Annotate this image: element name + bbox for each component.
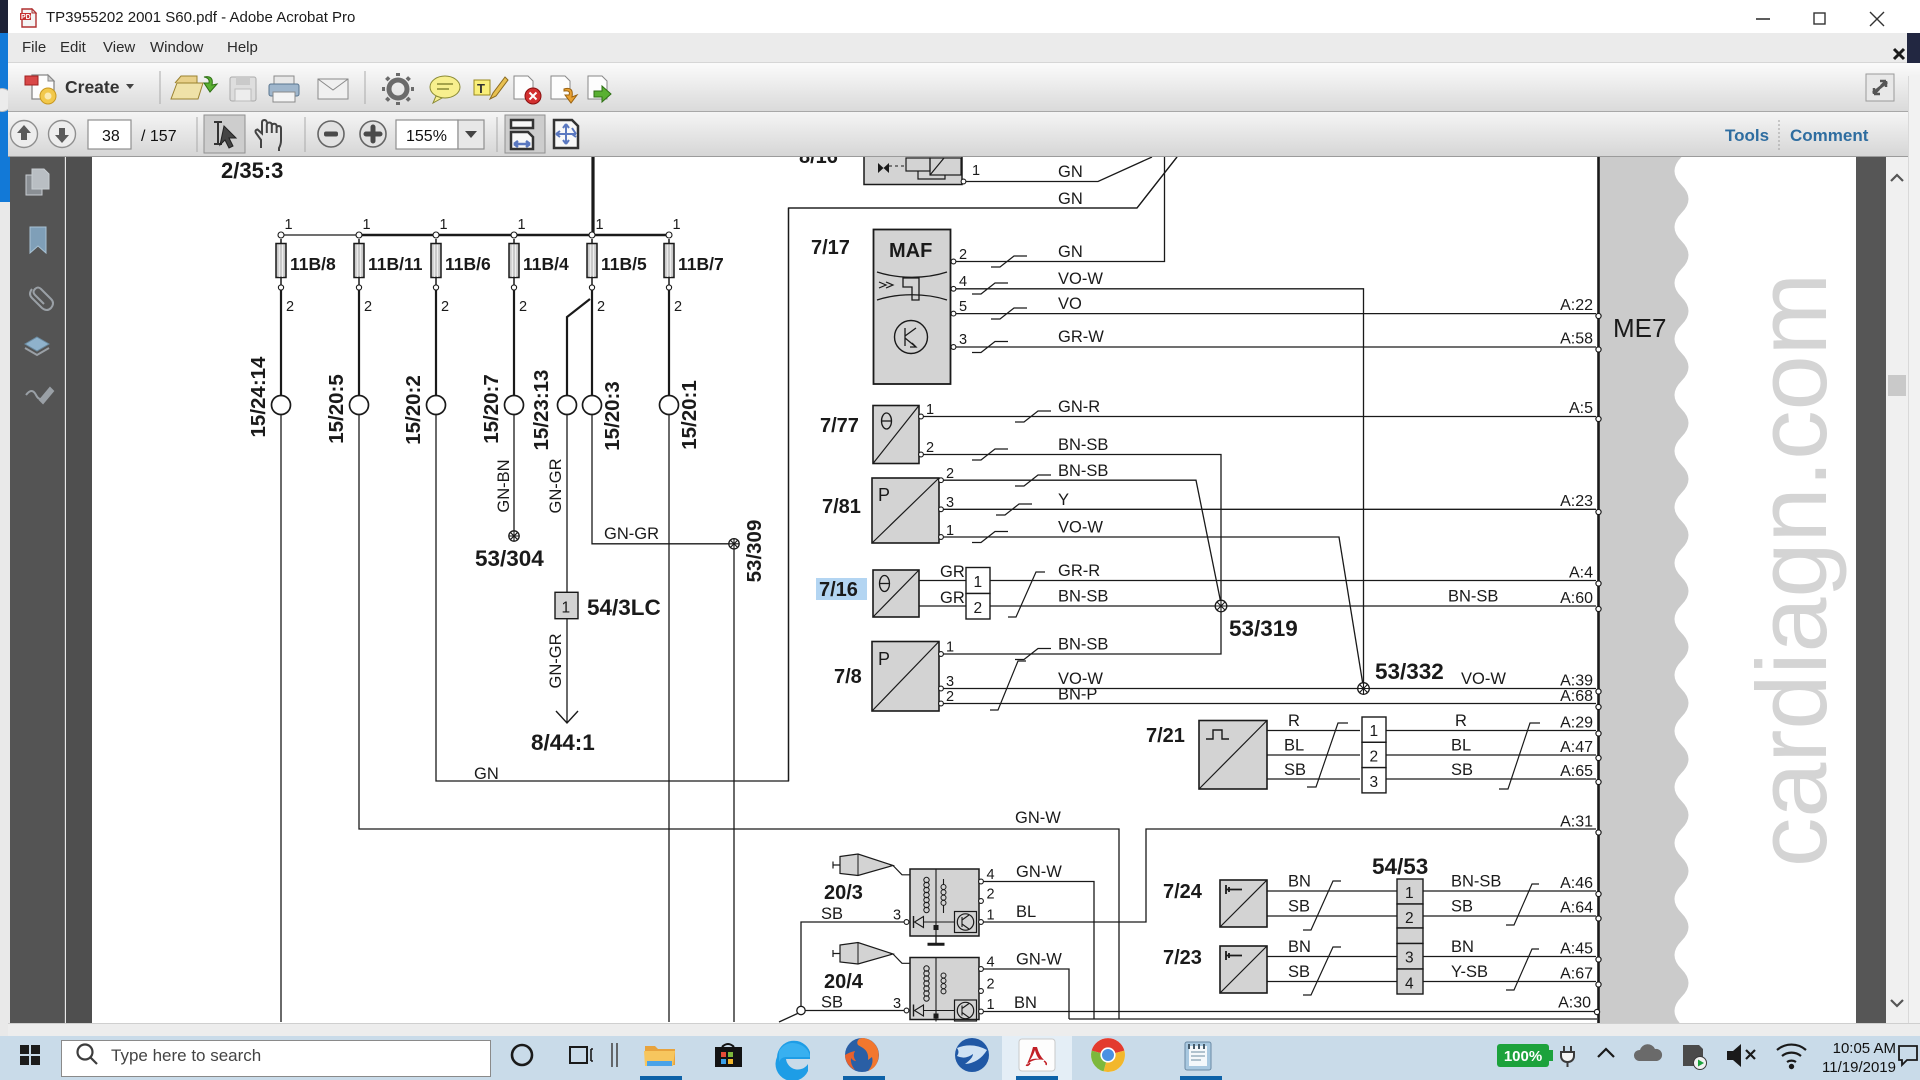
svg-text:GN-R: GN-R bbox=[1058, 398, 1100, 416]
wire GN-W 20/4 pin4 bbox=[984, 969, 1070, 1019]
connector 15/20:7 bbox=[480, 374, 524, 444]
file explorer bbox=[644, 1046, 675, 1066]
svg-text:SB: SB bbox=[1288, 963, 1310, 981]
wire GN-BN from 15/20:7 bbox=[513, 415, 515, 532]
connector 15/20:2 bbox=[402, 375, 446, 445]
mass air flow sensor 7/17 MAF bbox=[874, 230, 968, 385]
connector 15/24:14 bbox=[247, 356, 291, 438]
acrobat (active) bbox=[1019, 1039, 1055, 1071]
highlight text bbox=[474, 77, 508, 99]
select tool (pressed) bbox=[204, 115, 245, 153]
right maximize tool bbox=[1866, 74, 1894, 101]
node 53/304 bbox=[475, 531, 544, 571]
svg-text:2: 2 bbox=[674, 299, 682, 315]
toolbar 2 bbox=[8, 112, 1920, 157]
wire GN from 15/20:2 bbox=[436, 157, 1177, 781]
connector pins 1/2 of 7/16 bbox=[966, 568, 990, 620]
svg-text:15/20:5: 15/20:5 bbox=[325, 374, 348, 444]
splice slash bbox=[991, 256, 1027, 267]
wire GN lower diagonal bbox=[789, 157, 1178, 208]
wire 8/16 net down to GN rail bbox=[788, 208, 790, 781]
fit width (pressed) bbox=[505, 115, 545, 153]
connector 15/20:5 bbox=[325, 374, 369, 444]
svg-text:A:5: A:5 bbox=[1569, 400, 1593, 417]
svg-text:BN: BN bbox=[1288, 938, 1311, 956]
fuse 11B/4 bbox=[509, 217, 569, 315]
svg-text:SB: SB bbox=[821, 905, 843, 923]
svg-text:1: 1 bbox=[987, 908, 995, 924]
wire BN to A:45 bbox=[1423, 956, 1596, 958]
wire GR to connector pin 2 bbox=[919, 605, 966, 607]
svg-text:7/8: 7/8 bbox=[834, 666, 862, 688]
injector 20/3 bbox=[833, 854, 910, 876]
wire Y-SB to A:67 bbox=[1423, 981, 1596, 983]
svg-text:3: 3 bbox=[946, 674, 954, 690]
connector 54/3LC bbox=[555, 592, 661, 620]
wire VO MAF pin5 to A:22 bbox=[956, 313, 1596, 315]
svg-text:4: 4 bbox=[987, 955, 995, 971]
bus wire thick segment bbox=[359, 234, 669, 237]
svg-text:3: 3 bbox=[893, 996, 901, 1012]
svg-text:/ 157: / 157 bbox=[141, 128, 177, 145]
fuse 11B/8 bbox=[276, 217, 336, 315]
wire R to A:29 bbox=[1386, 730, 1596, 732]
splice slash bbox=[1506, 884, 1539, 925]
title bar bbox=[8, 0, 1920, 33]
search magnifier bbox=[78, 1045, 98, 1065]
svg-text:GN: GN bbox=[1058, 190, 1083, 208]
connector 54/53 bbox=[1372, 854, 1428, 994]
svg-text:1: 1 bbox=[946, 640, 954, 656]
desktop edges bbox=[0, 0, 10, 33]
battery 100% bbox=[1497, 1044, 1553, 1067]
splice slash bbox=[972, 283, 1008, 294]
thunderbird bbox=[955, 1038, 989, 1072]
svg-text:20/4: 20/4 bbox=[824, 971, 864, 993]
connector 15/20:1 bbox=[660, 380, 702, 450]
svg-text:A:65: A:65 bbox=[1560, 763, 1593, 780]
svg-text:11B/7: 11B/7 bbox=[678, 254, 724, 274]
splice slash bbox=[1499, 723, 1540, 789]
svg-text:A:67: A:67 bbox=[1560, 966, 1593, 983]
wire SB 7/23 bbox=[1267, 981, 1397, 983]
fuse 11B/7 bbox=[664, 217, 724, 315]
wire 53/309 down bbox=[733, 549, 735, 1022]
wire fuse 11B/7 to connector bbox=[668, 290, 670, 396]
wire fuse 11B/6 to connector bbox=[435, 290, 437, 396]
svg-text:1: 1 bbox=[285, 217, 293, 233]
temperature sensor 7/16 (highlighted) bbox=[816, 570, 919, 617]
svg-text:54/53: 54/53 bbox=[1372, 854, 1428, 879]
svg-text:SB: SB bbox=[1288, 898, 1310, 916]
svg-text:BN-P: BN-P bbox=[1058, 686, 1097, 704]
svg-text:155%: 155% bbox=[406, 128, 447, 145]
svg-text:1: 1 bbox=[440, 217, 448, 233]
svg-text:T: T bbox=[477, 81, 485, 96]
svg-text:11B/8: 11B/8 bbox=[290, 254, 336, 274]
svg-text:2: 2 bbox=[597, 299, 605, 315]
svg-text:2: 2 bbox=[959, 247, 967, 263]
svg-text:PD: PD bbox=[21, 14, 31, 21]
svg-text:1: 1 bbox=[562, 600, 571, 617]
svg-text:cardiagn.com: cardiagn.com bbox=[1736, 273, 1847, 867]
arrow to 8/44:1 bbox=[556, 711, 578, 723]
node 53/319 bbox=[1215, 600, 1298, 641]
toolbar 1 bbox=[8, 63, 1920, 112]
schematic SVG bbox=[92, 157, 1856, 1023]
svg-text:15/24:14: 15/24:14 bbox=[247, 356, 270, 438]
svg-text:SB: SB bbox=[1451, 761, 1473, 779]
svg-text:3: 3 bbox=[1370, 774, 1379, 791]
svg-text:1: 1 bbox=[974, 574, 983, 591]
svg-text:VO-W: VO-W bbox=[1058, 270, 1103, 288]
fuse 11B/5 bbox=[587, 217, 647, 315]
svg-text:5: 5 bbox=[959, 299, 967, 315]
comment bubble bbox=[430, 76, 460, 103]
splice slash bbox=[1307, 723, 1348, 787]
svg-text:2/35:3: 2/35:3 bbox=[221, 158, 283, 183]
svg-text:A:60: A:60 bbox=[1560, 590, 1593, 607]
wifi bbox=[1777, 1045, 1806, 1069]
svg-text:15/23:13: 15/23:13 bbox=[530, 370, 553, 451]
svg-text:2: 2 bbox=[987, 977, 995, 993]
svg-text:38: 38 bbox=[102, 128, 120, 145]
wire GN-W from 15/20:5 bbox=[359, 415, 1119, 1020]
svg-text:GN-GR: GN-GR bbox=[604, 525, 659, 543]
svg-text:A:45: A:45 bbox=[1560, 941, 1593, 958]
wire GR to connector pin 1 bbox=[919, 580, 966, 582]
create icon bbox=[25, 75, 56, 104]
svg-text:4: 4 bbox=[959, 274, 967, 290]
svg-text:2: 2 bbox=[946, 689, 954, 705]
injector 20/4 bbox=[833, 943, 910, 965]
svg-text:1: 1 bbox=[518, 217, 526, 233]
svg-text:VO-W: VO-W bbox=[1461, 670, 1506, 688]
svg-text:A:29: A:29 bbox=[1560, 715, 1593, 732]
zoom box bbox=[396, 120, 458, 149]
svg-text:GN: GN bbox=[1058, 243, 1083, 261]
wire GN-GR from 15/20:3 to node 53/309 bbox=[592, 415, 729, 544]
svg-text:4: 4 bbox=[1405, 976, 1414, 993]
svg-text:R: R bbox=[1288, 712, 1300, 730]
svg-text:A:22: A:22 bbox=[1560, 297, 1593, 314]
store bbox=[715, 1044, 742, 1067]
email bbox=[318, 79, 348, 99]
wire SB to A:65 bbox=[1386, 778, 1596, 780]
wire fuse 11B/5 to connector 15/20:3 bbox=[591, 290, 593, 396]
svg-text:4: 4 bbox=[987, 867, 995, 883]
fit page bbox=[554, 120, 578, 148]
sidebar icons bbox=[10, 157, 65, 457]
svg-text:53/332: 53/332 bbox=[1375, 659, 1444, 684]
svg-text:BN-SB: BN-SB bbox=[1058, 436, 1108, 454]
wire GR-R to A:4 bbox=[990, 580, 1596, 582]
svg-text:A:47: A:47 bbox=[1560, 739, 1593, 756]
wire GN-W 20/3 pin4 bbox=[984, 882, 1095, 1020]
svg-text:7/16: 7/16 bbox=[819, 579, 858, 601]
svg-text:7/77: 7/77 bbox=[820, 415, 859, 437]
svg-text:1: 1 bbox=[1405, 885, 1414, 902]
connector 15/23:13 bbox=[530, 370, 577, 451]
svg-text:R: R bbox=[1455, 712, 1467, 730]
svg-text:15/20:7: 15/20:7 bbox=[480, 374, 503, 444]
wire SB 7/21 bbox=[1267, 778, 1360, 780]
svg-text:3: 3 bbox=[893, 908, 901, 924]
wire BN-P 7/8 pin2 to A:68 bbox=[944, 703, 1597, 705]
relay 20/3 bbox=[893, 867, 995, 936]
wire SB 7/24 bbox=[1267, 915, 1397, 917]
wire 15/24:14 down bbox=[280, 415, 282, 1023]
svg-text:GR-R: GR-R bbox=[1058, 562, 1100, 580]
node 53/309 bbox=[729, 520, 766, 583]
svg-text:20/3: 20/3 bbox=[824, 882, 863, 904]
wire R 7/21 bbox=[1267, 730, 1360, 732]
ground bbox=[928, 936, 945, 944]
svg-text:BL: BL bbox=[1284, 737, 1304, 755]
svg-text:100%: 100% bbox=[1504, 1048, 1542, 1065]
svg-text:1: 1 bbox=[987, 997, 995, 1013]
svg-text:GN-W: GN-W bbox=[1016, 863, 1062, 881]
svg-text:A:46: A:46 bbox=[1560, 875, 1593, 892]
solenoid valve 8/16 (cut at top) bbox=[864, 150, 980, 185]
pressure sensor 7/8 bbox=[872, 640, 954, 712]
svg-text:BL: BL bbox=[1451, 737, 1471, 755]
svg-text:3: 3 bbox=[959, 332, 967, 348]
svg-text:BN-SB: BN-SB bbox=[1058, 588, 1108, 606]
wire GN-GR from 15/23:13 bbox=[566, 415, 568, 593]
defender bbox=[1683, 1045, 1707, 1070]
wire 15/20:1 down bbox=[668, 415, 670, 1023]
svg-text:1: 1 bbox=[673, 217, 681, 233]
svg-text:A:4: A:4 bbox=[1569, 565, 1593, 582]
svg-text:7/81: 7/81 bbox=[822, 496, 861, 518]
chevron hidden icons bbox=[1598, 1049, 1614, 1057]
gear bbox=[382, 73, 414, 105]
wire BN 7/24 bbox=[1267, 890, 1397, 892]
svg-text:A:39: A:39 bbox=[1560, 673, 1593, 690]
svg-text:A:58: A:58 bbox=[1560, 331, 1593, 348]
svg-text:3: 3 bbox=[1405, 950, 1414, 967]
speaker muted bbox=[1727, 1044, 1755, 1067]
svg-text:SB: SB bbox=[1284, 761, 1306, 779]
svg-text:15/20:1: 15/20:1 bbox=[678, 380, 701, 450]
svg-text:GN-BN: GN-BN bbox=[495, 459, 513, 512]
onedrive cloud bbox=[1634, 1044, 1662, 1061]
svg-text:BN: BN bbox=[1451, 938, 1474, 956]
svg-text:GN-W: GN-W bbox=[1015, 809, 1061, 827]
cortana bbox=[512, 1045, 532, 1065]
svg-text:15/20:3: 15/20:3 bbox=[601, 381, 624, 451]
relay 20/4 bbox=[893, 955, 995, 1022]
temperature sensor 7/77 bbox=[873, 402, 934, 464]
taskbar bbox=[0, 1036, 1920, 1080]
svg-text:1: 1 bbox=[972, 163, 980, 179]
task view bbox=[570, 1047, 593, 1063]
wire GN-R 7/77 pin1 to A:5 bbox=[924, 416, 1597, 418]
svg-text:11B/5: 11B/5 bbox=[601, 254, 647, 274]
svg-text:SB: SB bbox=[821, 994, 843, 1012]
svg-text:1: 1 bbox=[363, 217, 371, 233]
wire GN-W to A:31 bbox=[983, 829, 1596, 922]
svg-text:SB: SB bbox=[1451, 898, 1473, 916]
svg-text:2: 2 bbox=[1370, 749, 1379, 766]
svg-text:7/17: 7/17 bbox=[811, 237, 850, 259]
sensor 7/21 bbox=[1199, 721, 1267, 790]
svg-text:GN-GR: GN-GR bbox=[547, 458, 565, 513]
connector 15/20:3 bbox=[583, 381, 625, 451]
splice slash bbox=[1303, 947, 1341, 995]
splice slash bbox=[1303, 881, 1341, 930]
svg-text:53/319: 53/319 bbox=[1229, 616, 1298, 641]
svg-text:GN: GN bbox=[1058, 163, 1083, 181]
wire GN-GR below 54/3LC bbox=[566, 619, 568, 722]
bus wire thin segment bbox=[281, 234, 359, 236]
edge bbox=[775, 1041, 810, 1080]
svg-text:7/24: 7/24 bbox=[1163, 881, 1203, 903]
immobilizer antenna 7/23 bbox=[1220, 946, 1267, 993]
wire BN-SB 7/77 pin2 to node 53/319 bbox=[924, 455, 1222, 601]
save-as page bbox=[588, 76, 611, 102]
pdf icon in title bbox=[19, 8, 39, 28]
svg-text:A:64: A:64 bbox=[1560, 900, 1593, 917]
plug bbox=[1561, 1046, 1574, 1067]
svg-text:GR-W: GR-W bbox=[1058, 328, 1104, 346]
wire VO-W MAF pin4 bbox=[956, 289, 1364, 684]
wire BN-SB 7/8 pin1 to node 53/319 bbox=[944, 612, 1222, 654]
wire VO-W 7/81 pin1 to node 53/332 bbox=[944, 537, 1364, 685]
svg-text:2: 2 bbox=[987, 887, 995, 903]
svg-text:BN-SB: BN-SB bbox=[1058, 462, 1108, 480]
up/down nav bbox=[11, 121, 76, 148]
junction SB bbox=[797, 1006, 805, 1014]
open bbox=[171, 76, 217, 99]
svg-text:Tools: Tools bbox=[1725, 126, 1769, 145]
svg-text:3: 3 bbox=[946, 495, 954, 511]
svg-text:GN: GN bbox=[474, 765, 499, 783]
wire GN-W rail to ME7 bbox=[1069, 1018, 1597, 1020]
window buttons bbox=[1740, 8, 1900, 30]
content panes bbox=[10, 157, 65, 1023]
menu bar bbox=[8, 33, 1907, 63]
wire SB 20/4 pin3 bbox=[805, 1010, 904, 1012]
svg-text:GN-W: GN-W bbox=[1016, 951, 1062, 969]
svg-text:MAF: MAF bbox=[889, 240, 932, 262]
svg-text:BN: BN bbox=[1288, 873, 1311, 891]
save (disabled) bbox=[230, 77, 256, 101]
wire BL 7/21 bbox=[1267, 754, 1360, 756]
wire fuse 11B/11 to connector bbox=[358, 290, 360, 396]
svg-text:1: 1 bbox=[596, 217, 604, 233]
wire BN-SB to A:60 through node 53/319 bbox=[990, 605, 1596, 607]
pressure sensor 7/81 bbox=[872, 466, 954, 543]
svg-text:7/21: 7/21 bbox=[1146, 725, 1185, 747]
splice slash bbox=[990, 661, 1026, 710]
wire Y 7/81 pin3 to A:23 bbox=[944, 508, 1597, 510]
svg-text:Comment: Comment bbox=[1790, 126, 1869, 145]
svg-text:ME7: ME7 bbox=[1613, 313, 1666, 343]
wire GN MAF pin2 bbox=[956, 157, 1165, 262]
svg-text:8/16: 8/16 bbox=[799, 157, 838, 168]
svg-text:2: 2 bbox=[926, 440, 934, 456]
wire fuse 11B/4 to connector bbox=[513, 290, 515, 396]
svg-text:2: 2 bbox=[519, 299, 527, 315]
svg-text:2: 2 bbox=[1405, 910, 1414, 927]
svg-text:2: 2 bbox=[364, 299, 372, 315]
svg-text:2: 2 bbox=[974, 600, 983, 617]
svg-text:1: 1 bbox=[926, 402, 934, 418]
svg-text:P: P bbox=[878, 485, 890, 505]
svg-text:8/44:1: 8/44:1 bbox=[531, 730, 595, 755]
svg-text:2: 2 bbox=[441, 299, 449, 315]
splice slash bbox=[1506, 949, 1539, 990]
svg-text:A:31: A:31 bbox=[1560, 814, 1593, 831]
svg-text:P: P bbox=[878, 649, 890, 669]
start button bbox=[20, 1045, 40, 1065]
svg-text:VO: VO bbox=[1058, 295, 1082, 313]
node 2/35:3 feeder wire bbox=[591, 157, 594, 235]
export page bbox=[551, 76, 577, 103]
svg-text:11B/6: 11B/6 bbox=[445, 254, 491, 274]
connector pins 1/2/3 of 7/21 bbox=[1362, 717, 1386, 793]
svg-text:15/20:2: 15/20:2 bbox=[402, 375, 425, 445]
hand tool bbox=[256, 120, 282, 151]
ME7 boundary line bbox=[1597, 157, 1600, 1023]
fuse 11B/6 bbox=[431, 217, 491, 315]
ME7 ECU gray band with torn wavy edge bbox=[1599, 157, 1689, 1025]
svg-text:54/3LC: 54/3LC bbox=[587, 595, 661, 620]
wire SB off page bbox=[779, 1014, 798, 1023]
svg-text:GN-GR: GN-GR bbox=[547, 633, 565, 688]
wire BN 7/23 bbox=[1267, 956, 1397, 958]
separator bbox=[612, 1043, 617, 1067]
svg-text:BN: BN bbox=[1014, 994, 1037, 1012]
wire GR-W MAF pin3 to A:58 bbox=[956, 346, 1596, 348]
svg-text:2: 2 bbox=[286, 299, 294, 315]
zoom out / in bbox=[318, 121, 344, 147]
svg-text:BN-SB: BN-SB bbox=[1058, 636, 1108, 654]
svg-text:53/304: 53/304 bbox=[475, 546, 544, 571]
svg-text:A:30: A:30 bbox=[1558, 995, 1591, 1012]
wire VO-W 7/8 pin3 to A:39 through node 53/332 bbox=[944, 688, 1597, 690]
splice slash bbox=[1008, 572, 1045, 617]
svg-text:Y-SB: Y-SB bbox=[1451, 963, 1488, 981]
wire SB to A:64 bbox=[1423, 915, 1596, 917]
wire fuse 11B/8 to connector bbox=[280, 290, 282, 396]
svg-text:GR: GR bbox=[940, 589, 965, 607]
wire BN 20/4 pin1 to A:30 bbox=[984, 1011, 1597, 1013]
action center bubble bbox=[1899, 1046, 1917, 1065]
wire BL to A:47 bbox=[1386, 754, 1596, 756]
wire BN-SB 7/81 pin2 to node 53/319 bbox=[944, 480, 1221, 601]
svg-text:7/23: 7/23 bbox=[1163, 947, 1202, 969]
wire SB 20/3 pin3 bbox=[801, 922, 904, 1007]
svg-text:BN-SB: BN-SB bbox=[1451, 873, 1501, 891]
fuse 11B/11 bbox=[354, 217, 423, 315]
svg-text:GR: GR bbox=[940, 563, 965, 581]
svg-text:BN-SB: BN-SB bbox=[1448, 588, 1498, 606]
svg-text:11B/4: 11B/4 bbox=[523, 254, 569, 274]
firefox bbox=[845, 1038, 879, 1072]
svg-text:1: 1 bbox=[1370, 723, 1379, 740]
svg-text:BL: BL bbox=[1016, 903, 1036, 921]
node 53/332 bbox=[1358, 659, 1444, 694]
print bbox=[269, 76, 299, 102]
notepad bbox=[1185, 1042, 1211, 1070]
svg-text:11B/11: 11B/11 bbox=[368, 254, 423, 274]
immobilizer antenna 7/24 bbox=[1220, 880, 1267, 927]
svg-text:A:23: A:23 bbox=[1560, 493, 1593, 510]
delete page bbox=[514, 76, 541, 104]
